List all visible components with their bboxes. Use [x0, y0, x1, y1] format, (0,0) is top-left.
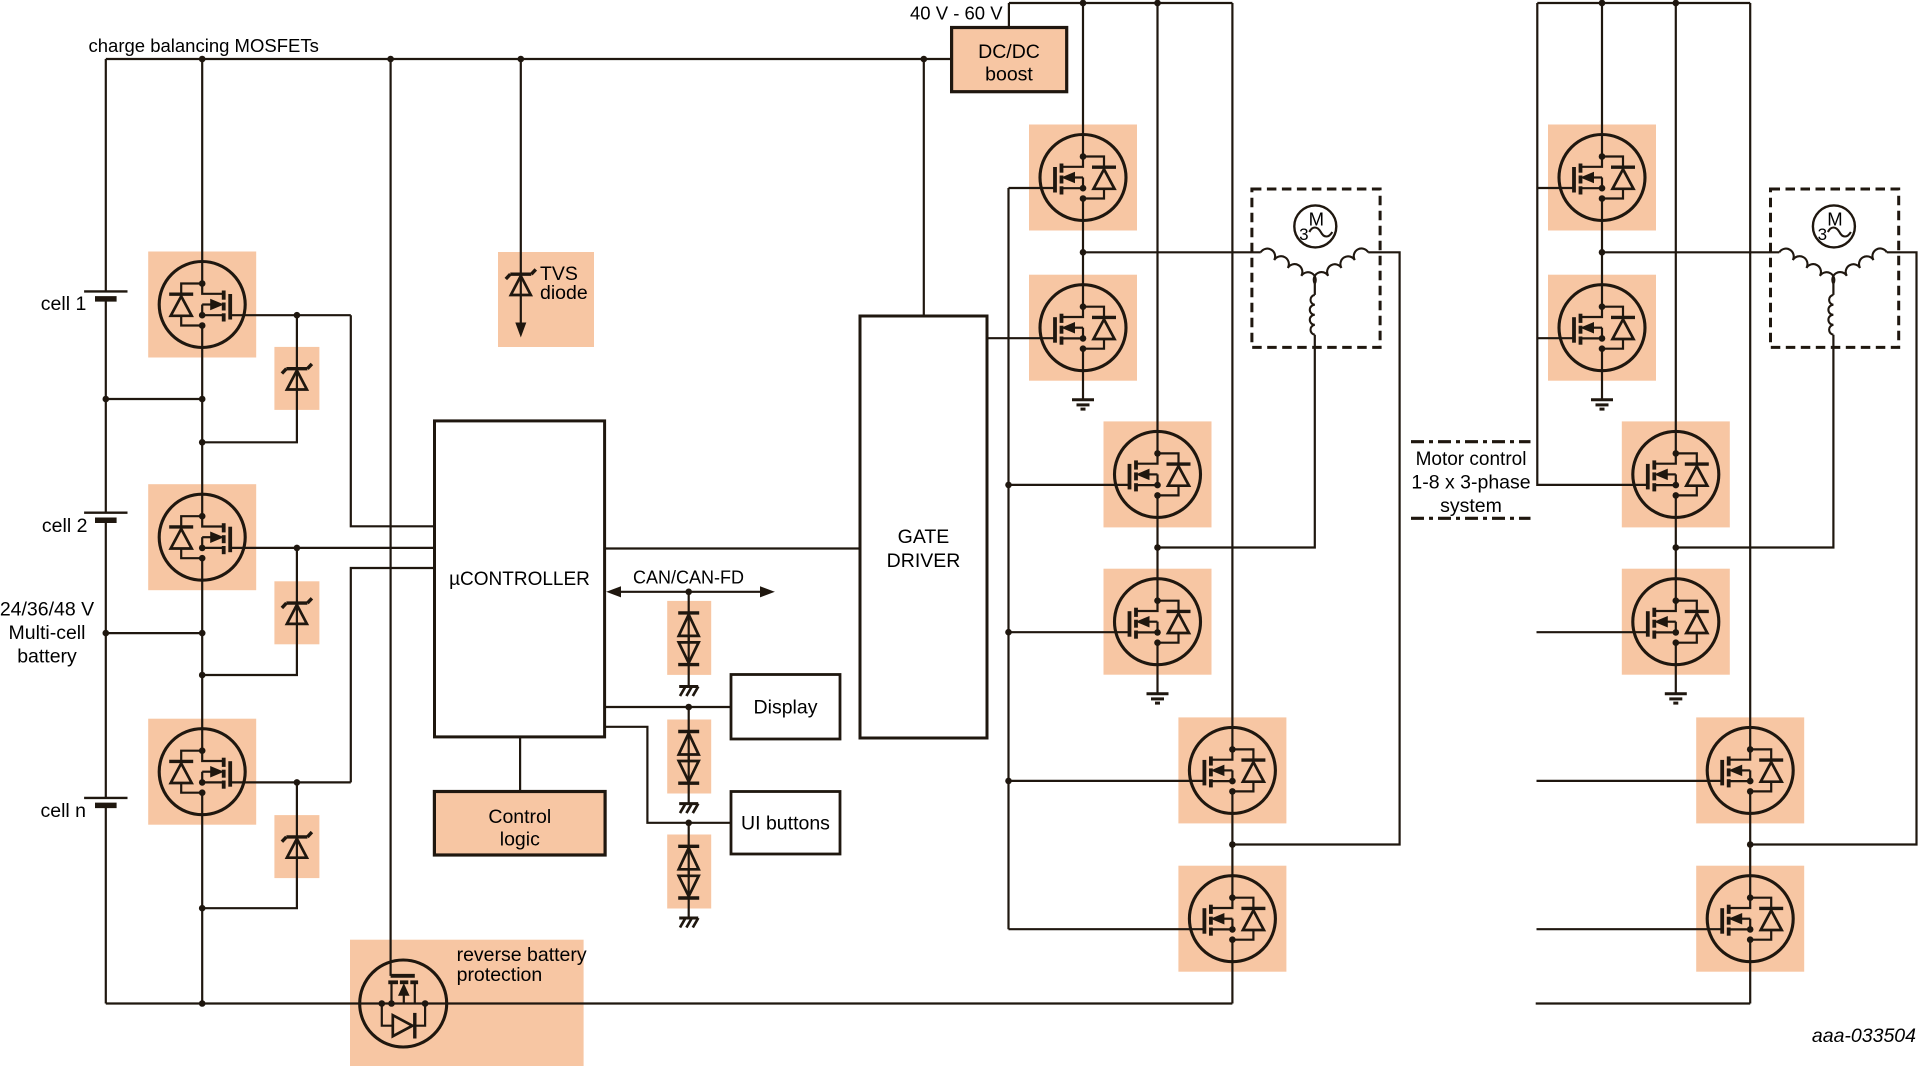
svg-text:battery: battery — [17, 646, 77, 668]
label document number — [1812, 1025, 1916, 1047]
junction top rail / leg A — [1080, 0, 1087, 6]
highlight box bank1 low C — [1178, 866, 1286, 972]
junction Q2 gate / zener D2 — [294, 545, 301, 552]
wire Q3 gate — [230, 781, 351, 783]
wire leg C source bank2 — [1749, 962, 1751, 1004]
junction tap2 chain — [199, 630, 206, 637]
wire low-A gate stub bank2 — [1537, 337, 1575, 339]
svg-text:Control: Control — [488, 806, 551, 828]
highlight box bank1 high A — [1029, 125, 1137, 231]
highlight box zener D1 — [274, 347, 319, 410]
wire leg C source bank1 — [1231, 962, 1233, 1004]
zener diode D1 — [202, 315, 312, 442]
block DC/DC boost — [952, 28, 1067, 92]
wire battery rail cell2-celln — [105, 520, 107, 798]
label Display — [754, 697, 818, 719]
svg-text:DC/DC: DC/DC — [978, 41, 1040, 63]
wire leg B mid bank2 — [1675, 517, 1677, 578]
highlight box TVS diode — [498, 252, 594, 347]
junction gate bus / high-B bank1 — [1005, 482, 1012, 489]
label cell 2 — [42, 515, 88, 537]
wire chain top — [201, 59, 203, 262]
label Control logic — [488, 806, 551, 851]
junction top bus / TVS — [518, 56, 525, 63]
highlight box bank2 low A — [1548, 275, 1656, 381]
wire high-C gate bank1 — [1009, 780, 1205, 782]
junction tap2 rail — [103, 630, 110, 637]
zener diode D3 — [202, 782, 312, 908]
wire high-B gate bank1 — [1009, 484, 1130, 486]
wire low-A gate bank1 — [987, 337, 1055, 339]
wire battery rail cell1-cell2 — [105, 299, 107, 513]
wire low-B gate stub bank2 — [1537, 631, 1648, 633]
svg-text:UI buttons: UI buttons — [741, 813, 830, 835]
svg-text:DRIVER: DRIVER — [887, 550, 961, 572]
wire phase B bank1 — [1158, 335, 1315, 548]
battery cell 2 — [84, 513, 127, 521]
node phase A bank2 — [1599, 249, 1606, 256]
wire gate feed bank2 — [1537, 3, 1648, 485]
wire leg B top bank1 — [1156, 3, 1158, 431]
transistor high-side A bank1 — [1040, 135, 1126, 221]
transistor Q1 charge balancing cell 1 — [159, 262, 245, 348]
wire high-A gate stub bank2 — [1537, 187, 1575, 189]
junction chain / zener D1 return — [199, 439, 206, 446]
svg-text:cell n: cell n — [41, 800, 87, 822]
wire phase C bank1 — [1232, 252, 1399, 844]
motor M2 3-phase — [1771, 189, 1899, 347]
junction Q1 gate / zener D1 — [294, 312, 301, 319]
highlight box bank1 high C — [1178, 717, 1286, 823]
diode stack1 — [678, 592, 699, 687]
wire tap cell2/celln — [106, 632, 202, 634]
highlight box Q3 — [148, 719, 256, 825]
block uCONTROLLER — [435, 421, 605, 737]
wire bus to gate driver — [923, 59, 925, 316]
junction UI wire / stack3 — [685, 820, 692, 827]
transistor high-side B bank1 — [1115, 431, 1201, 517]
wire leg B source bank2 — [1675, 665, 1677, 694]
transistor low-side A bank1 — [1040, 285, 1126, 371]
junction top bus / reverse-gate line — [387, 56, 394, 63]
wire Q1 gate — [230, 314, 351, 316]
svg-text:Display: Display — [754, 697, 818, 719]
svg-text:M: M — [1827, 209, 1842, 230]
highlight box bank2 low B — [1622, 569, 1730, 675]
transistor Q2 charge balancing cell 2 — [159, 494, 245, 580]
svg-text:aaa-033504: aaa-033504 — [1812, 1025, 1916, 1047]
ground stack1 — [679, 687, 698, 697]
junction chain / zener D3 return — [199, 905, 206, 912]
highlight box diode stack2 — [667, 720, 711, 794]
diode stack2 — [678, 707, 699, 804]
wire top bus — [106, 58, 952, 60]
highlight box reverse battery protection — [350, 940, 584, 1066]
transistor high-side C bank1 — [1189, 727, 1275, 813]
highlight box zener D2 — [274, 581, 319, 644]
highlight box zener D3 — [274, 815, 319, 878]
wire leg B top bank2 — [1675, 3, 1677, 431]
wire leg B source bank1 — [1156, 665, 1158, 694]
wire leg A mid bank2 — [1601, 221, 1603, 285]
svg-text:3: 3 — [1299, 225, 1308, 244]
highlight box bank2 low C — [1696, 866, 1804, 972]
wire high-A gate bank1 — [1009, 187, 1056, 189]
label charge balancing MOSFETs — [89, 35, 319, 56]
svg-text:40 V - 60 V: 40 V - 60 V — [910, 3, 1003, 24]
transistor low-side B bank1 — [1115, 579, 1201, 665]
junction top rail / leg A bank2 — [1599, 0, 1606, 6]
motor M1 3-phase — [1252, 189, 1380, 347]
highlight box bank1 low A — [1029, 275, 1137, 381]
highlight box bank1 high B — [1104, 421, 1212, 527]
svg-text:M: M — [1309, 209, 1324, 230]
transistor Q3 charge balancing cell n — [159, 729, 245, 815]
label DC/DC boost — [978, 41, 1040, 86]
wire chain Q1-Q2 — [201, 348, 203, 495]
node phase A bank1 — [1080, 249, 1087, 256]
label cell 1 — [41, 293, 87, 315]
svg-text:Multi-cell: Multi-cell — [9, 622, 86, 644]
transistor high-side C bank2 — [1707, 727, 1793, 813]
wire bottom bus — [106, 1002, 1233, 1004]
wire low-C gate bank1 — [1009, 928, 1205, 930]
ground leg B bank1 — [1147, 694, 1169, 703]
wire phase A bank1 — [1083, 251, 1261, 253]
highlight box bank2 high B — [1622, 421, 1730, 527]
junction tap1 chain — [199, 396, 206, 403]
wire leg B mid bank1 — [1156, 517, 1158, 578]
junction top rail / leg B — [1154, 0, 1161, 6]
wire leg A top bank2 — [1601, 3, 1603, 135]
label cell n — [41, 800, 87, 822]
label multi-cell battery — [0, 599, 94, 668]
battery cell n — [84, 798, 127, 806]
wire leg C mid bank2 — [1749, 813, 1751, 875]
wire Q1 gate link down — [351, 315, 435, 526]
label CAN/CAN-FD — [633, 568, 744, 588]
transistor low-side C bank2 — [1707, 876, 1793, 962]
junction tap1 rail — [103, 396, 110, 403]
label UI buttons — [741, 813, 830, 835]
block UI buttons — [731, 792, 840, 855]
svg-text:Motor control: Motor control — [1416, 449, 1527, 470]
junction display wire / stack2 — [685, 704, 692, 711]
wire phase A bank2 — [1602, 251, 1779, 253]
highlight box diode stack1 — [667, 601, 711, 675]
wire phase C bank2 — [1750, 252, 1916, 844]
inductor motor2 windings — [1779, 248, 1887, 334]
transistor high-side B bank2 — [1633, 431, 1719, 517]
transistor low-side B bank2 — [1633, 579, 1719, 665]
wire top rail bank2 — [1537, 2, 1750, 4]
junction gate bus / high-C bank1 — [1005, 778, 1012, 785]
wire leg C top bank1 — [1231, 3, 1233, 727]
wire CAN/CAN-FD bus — [608, 587, 774, 597]
node phase C bank1 — [1229, 841, 1236, 848]
svg-text:cell 1: cell 1 — [41, 293, 87, 315]
wire leg A source bank1 — [1082, 371, 1084, 400]
wire DC/DC output — [1008, 3, 1010, 28]
block Display — [731, 675, 840, 740]
wire low-C gate stub bank2 — [1537, 928, 1723, 930]
wire reverse-gate vertical — [390, 59, 392, 976]
highlight box bank2 high C — [1696, 717, 1804, 823]
wire low-B gate bank1 — [1009, 631, 1130, 633]
wire leg A top bank1 — [1082, 3, 1084, 135]
block GATE DRIVER — [860, 316, 987, 738]
svg-text:system: system — [1440, 495, 1502, 517]
inductor motor1 windings — [1261, 248, 1369, 334]
transistor low-side C bank1 — [1189, 876, 1275, 962]
wire Q3 gate link up — [351, 568, 435, 782]
node phase B bank2 — [1673, 544, 1680, 551]
wire TVS — [520, 59, 522, 274]
junction CAN / diode stack1 — [685, 589, 692, 596]
highlight box Q1 — [148, 252, 256, 358]
svg-text:µCONTROLLER: µCONTROLLER — [449, 569, 590, 590]
ground stack3 — [679, 918, 698, 928]
wire uC to gate driver — [605, 547, 860, 549]
wire battery rail lower — [105, 805, 107, 1003]
wire gate bus bank1 — [1007, 188, 1009, 929]
node phase B bank1 — [1154, 544, 1161, 551]
label 40V-60V — [910, 3, 1003, 24]
zener diode D2 — [202, 548, 312, 675]
battery cell 1 — [84, 291, 127, 299]
junction top rail / leg B bank2 — [1673, 0, 1680, 6]
label uCONTROLLER — [449, 569, 590, 590]
label TVS diode — [540, 263, 588, 304]
wire battery rail upper — [105, 59, 107, 291]
junction top bus / chain — [199, 56, 206, 63]
diode stack3 — [678, 823, 699, 918]
highlight box diode stack3 — [667, 835, 711, 909]
wire phase B bank2 — [1676, 335, 1834, 548]
label reverse battery protection — [457, 944, 587, 986]
highlight box bank2 high A — [1548, 125, 1656, 231]
highlight box bank1 low B — [1104, 569, 1212, 675]
block Control logic — [434, 792, 605, 856]
junction Q3 gate / zener D3 — [294, 779, 301, 786]
svg-text:GATE: GATE — [898, 526, 950, 548]
wire uC to control logic — [519, 737, 521, 792]
node phase C bank2 — [1747, 841, 1754, 848]
wire uC to UI buttons — [605, 727, 731, 823]
svg-text:3: 3 — [1818, 225, 1827, 244]
wire Q2 gate — [230, 547, 434, 549]
wire chain bottom — [201, 815, 203, 1004]
transistor Q4 reverse battery protection — [360, 960, 447, 1047]
junction chain / zener D2 return — [199, 672, 206, 679]
wire bottom bus bank2 — [1536, 1002, 1751, 1004]
svg-text:charge balancing MOSFETs: charge balancing MOSFETs — [89, 35, 319, 56]
wire leg C top bank2 — [1749, 3, 1751, 727]
ground leg B bank2 — [1665, 694, 1687, 703]
svg-text:CAN/CAN-FD: CAN/CAN-FD — [633, 568, 744, 588]
junction gate bus / low-B bank1 — [1005, 629, 1012, 636]
highlight box Q2 — [148, 484, 256, 590]
svg-text:24/36/48 V: 24/36/48 V — [0, 599, 94, 621]
wire leg C mid bank1 — [1231, 813, 1233, 875]
wire tap cell1/cell2 — [106, 398, 202, 400]
junction top bus / gate driver — [921, 56, 928, 63]
ground stack2 — [679, 804, 698, 814]
svg-text:diode: diode — [540, 282, 588, 304]
TVS diode D4 — [506, 269, 536, 336]
wire high-C gate stub bank2 — [1537, 780, 1723, 782]
wire leg A source bank2 — [1601, 371, 1603, 400]
wire chain Q2-Q3 — [201, 580, 203, 729]
label motor control system — [1411, 442, 1531, 519]
wire uC to Display — [605, 706, 731, 708]
wire top rail bank1 — [1009, 2, 1233, 4]
transistor low-side A bank2 — [1559, 285, 1645, 371]
svg-text:logic: logic — [500, 829, 540, 851]
svg-text:protection: protection — [457, 964, 543, 986]
ground leg A bank1 — [1072, 400, 1094, 409]
junction chain / bottom bus — [199, 1000, 206, 1007]
svg-text:1-8 x 3-phase: 1-8 x 3-phase — [1411, 472, 1530, 494]
svg-text:reverse battery: reverse battery — [457, 944, 587, 966]
wire leg A mid bank1 — [1082, 221, 1084, 285]
transistor high-side A bank2 — [1559, 135, 1645, 221]
svg-text:boost: boost — [985, 64, 1033, 86]
svg-text:cell 2: cell 2 — [42, 515, 88, 537]
label GATE DRIVER — [887, 526, 961, 572]
ground leg A bank2 — [1591, 400, 1613, 409]
